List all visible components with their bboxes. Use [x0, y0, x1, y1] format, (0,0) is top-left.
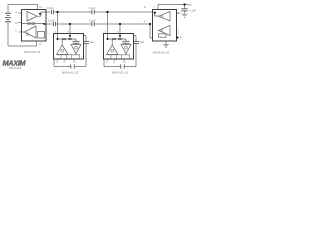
svg-text:0.1µF: 0.1µF — [89, 7, 96, 10]
svg-text:1µF: 1µF — [90, 41, 95, 44]
svg-text:MAX4162 1/2: MAX4162 1/2 — [112, 70, 129, 74]
svg-text:0.1µF: 0.1µF — [47, 7, 54, 10]
svg-text:MAX4162 1/2: MAX4162 1/2 — [24, 50, 41, 54]
svg-text:MAX4162 1/2: MAX4162 1/2 — [153, 50, 170, 54]
svg-text:V+: V+ — [39, 5, 43, 9]
svg-text:+: + — [1, 10, 3, 14]
svg-text:0.1µF: 0.1µF — [48, 19, 55, 22]
svg-text:R: R — [180, 36, 182, 40]
svg-text:MAX4162 1/2: MAX4162 1/2 — [62, 70, 79, 74]
svg-text:0.1µF: 0.1µF — [190, 9, 197, 12]
svg-text:V+: V+ — [189, 3, 193, 7]
svg-text:MAX4162: MAX4162 — [9, 66, 22, 70]
svg-text:1µF: 1µF — [140, 41, 145, 44]
svg-text:0.1µF: 0.1µF — [89, 19, 96, 22]
